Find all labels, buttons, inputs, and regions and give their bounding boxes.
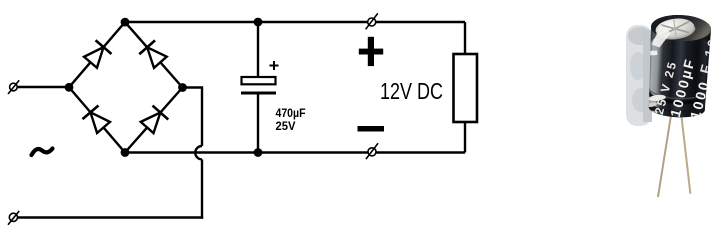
diode D2 top-right (anode at right AC node, cathode to + node) [139, 40, 168, 69]
wire bottom rail from bridge bottom node to load [125, 151, 465, 153]
capacitor C1 negative plate [241, 92, 276, 95]
photo: electrolytic capacitor [626, 13, 719, 200]
capacitor can body [646, 14, 711, 119]
capacitor C1 branch wire top [257, 22, 259, 77]
node left (AC corner) [65, 83, 74, 92]
capacitor C1 polarity plus sign [270, 61, 279, 70]
capacitor C1 positive plate [242, 77, 276, 84]
svg-text:25V: 25V [276, 121, 296, 133]
terminal symbol bottom output (circle with slash) [366, 143, 378, 159]
diode D3 bottom-left (anode at - node, cathode to left AC node) [83, 105, 112, 134]
diode D1 top-left (anode at left AC node, cathode to + node) [83, 40, 112, 69]
bright wedge highlight at cap left [652, 25, 672, 48]
crimp highlight blobs [649, 94, 667, 102]
junction node capacitor bottom [254, 148, 263, 157]
node bottom (- corner of bridge) [121, 148, 130, 157]
bottom base shade [646, 98, 709, 113]
svg-text:12V DC: 12V DC [380, 78, 443, 104]
can top rim [650, 14, 711, 43]
bridge diamond edges [69, 22, 183, 152]
node top (+ corner of bridge) [121, 18, 130, 27]
capacitor lead right [677, 114, 694, 194]
terminal symbol AC input top [8, 80, 19, 94]
output polarity minus symbol [358, 126, 385, 132]
junction node capacitor top [254, 18, 263, 27]
wire AC input top from terminal to left node [16, 86, 69, 88]
aluminum top [654, 16, 695, 41]
wire load resistor to bottom rail [464, 122, 466, 153]
diode D4 bottom-right (anode at - node, cathode to right AC node) [139, 106, 168, 135]
load resistor R1 [454, 54, 478, 122]
terminal symbol AC input bottom [8, 211, 19, 225]
negative stripe dash [650, 50, 657, 55]
wire AC input bottom horizontal [16, 216, 203, 218]
wire hop over bottom rail [195, 146, 202, 159]
AC tilde symbol [32, 149, 53, 156]
capacitor C1 branch wire bottom [257, 94, 259, 153]
wire right node stub to vertical AC feed [183, 88, 203, 147]
bottom crimp band [648, 91, 706, 104]
photo ghost shadow left [626, 25, 652, 126]
score marks on top [659, 21, 690, 36]
wire top rail from bridge top node to load [125, 21, 465, 23]
svg-text:470µF: 470µF [276, 108, 306, 120]
terminal symbol top output (circle with slash) [366, 13, 378, 29]
capacitor lead left [658, 113, 671, 197]
output polarity plus symbol [359, 37, 383, 66]
wire right side down to load resistor [464, 22, 466, 54]
node right (AC corner) [178, 83, 187, 92]
glossy dark under rim [650, 14, 712, 48]
wire vertical AC feed below hop [201, 159, 203, 218]
